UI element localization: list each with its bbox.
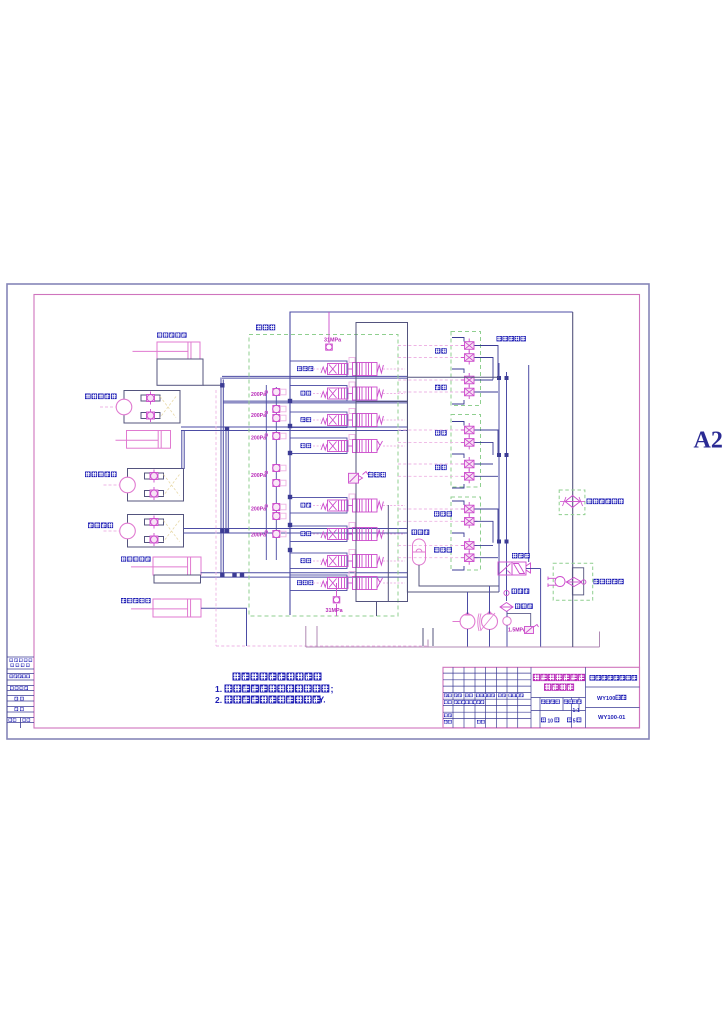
bucket cylinder C1 <box>133 342 201 359</box>
pilot group box 1 <box>451 332 481 406</box>
return filter F2 <box>566 578 582 587</box>
pilot valve P4 <box>461 385 478 399</box>
pilot line dashed P5 <box>398 429 461 431</box>
accumulator A1 <box>413 539 426 565</box>
oil cooler HX1 <box>565 496 580 508</box>
pilot line dashed P9 <box>398 508 461 510</box>
svg-text:1.: 1. <box>215 684 222 694</box>
pilot line dashed P12 <box>398 557 461 559</box>
pilot valve P6 <box>461 435 478 449</box>
pilot group box 2 <box>451 415 481 488</box>
top relief valve <box>326 312 333 350</box>
reducing valve R7 <box>273 503 286 510</box>
school name <box>590 675 638 681</box>
gear pump P3 <box>503 617 511 625</box>
check valve label <box>512 589 530 594</box>
pilot wiring steps <box>452 338 498 571</box>
title block small row texts <box>444 694 452 698</box>
svg-text:1.5MPa: 1.5MPa <box>508 628 526 634</box>
pilot drain dashed vertical <box>216 390 428 646</box>
pressure rail <box>290 312 573 615</box>
svg-text:WY100: WY100 <box>597 696 615 702</box>
main control valve dashed enclosure <box>249 335 398 617</box>
pilot valve P5 <box>461 423 478 437</box>
stage mark / qty / scale <box>541 700 560 704</box>
valve section V3 label <box>301 417 312 422</box>
accumulator label <box>412 530 430 535</box>
feed junctions on rail <box>288 399 292 552</box>
valve section V7 spool <box>313 550 405 568</box>
pilot valve P7 <box>461 457 478 471</box>
pilot enclosure lines <box>407 377 499 592</box>
outer sheet frame <box>7 284 649 739</box>
pilot valve P12 <box>461 551 478 565</box>
pilot group label <box>435 348 447 353</box>
valve block outline <box>356 323 408 402</box>
sheet count <box>541 718 546 723</box>
return filter box <box>553 563 593 600</box>
valve section V7 (spare) feed rect <box>290 553 347 569</box>
main valve label <box>256 325 275 331</box>
valve section V5 label <box>301 503 312 508</box>
pilot group label <box>434 547 452 552</box>
svg-text:;: ; <box>331 684 334 694</box>
svg-text:10: 10 <box>548 718 554 724</box>
reducing valve R6 <box>273 479 286 486</box>
boom cylinder C4 <box>131 599 201 617</box>
bucket cylinder 2 label <box>121 557 151 562</box>
pilot line dashed P2 <box>398 357 461 359</box>
svg-text:200Pa: 200Pa <box>251 436 266 442</box>
pilot valve P11 <box>461 538 478 552</box>
svg-text:WY100-01: WY100-01 <box>598 715 626 721</box>
reducing valve R4 <box>273 432 286 439</box>
bottom relief valve <box>333 583 340 616</box>
boom cylinder label <box>121 598 151 603</box>
inner drawing border <box>34 295 640 729</box>
mid relief valve <box>349 472 371 484</box>
svg-text:Y.: Y. <box>319 695 326 705</box>
reducing valve R3 <box>273 414 286 421</box>
valve section V8 label <box>297 580 313 585</box>
svg-text:2.: 2. <box>215 695 222 705</box>
valve section V2 label <box>301 391 312 396</box>
cylinder C1 port box <box>157 359 203 385</box>
svg-text:31MPa: 31MPa <box>326 608 344 614</box>
wire C1 to bus <box>203 384 222 386</box>
right travel motor M2 <box>128 469 184 502</box>
reducing valve R8 <box>273 512 286 519</box>
pilot group label <box>435 430 447 435</box>
technical notes heading <box>233 673 322 681</box>
pilot valve P2 <box>461 351 478 365</box>
svg-text:200Pa: 200Pa <box>251 392 266 398</box>
valve section V4 label <box>301 443 312 448</box>
reducing valve R5 <box>273 464 286 471</box>
valve section V1 label <box>297 366 313 371</box>
valve section V4 spool <box>313 435 405 453</box>
valve section V2 (arm) feed rect <box>290 386 347 402</box>
pump drains <box>468 586 508 647</box>
cylinder C3 port box <box>154 575 201 583</box>
inner pilot buses <box>266 385 276 560</box>
valve section V8 (right travel) feed rect <box>290 575 347 591</box>
title block outline <box>443 667 640 728</box>
valve section V4 (dozer) feed rect <box>290 438 347 454</box>
solenoid valve S1 <box>498 562 531 575</box>
valve section V1 spool <box>313 358 405 376</box>
pilot line dashed P1 <box>398 345 461 347</box>
accumulator drain <box>419 565 499 586</box>
pilot line dashed P11 <box>398 544 461 546</box>
return filter bypass rect <box>572 568 583 595</box>
bucket cylinder label <box>157 333 187 338</box>
valve section V3 (swing) feed rect <box>290 412 347 428</box>
swing motor M3 <box>128 515 184 548</box>
pilot line dashed P6 <box>398 441 461 443</box>
filter F1 <box>500 603 513 612</box>
bus node dots <box>265 391 268 534</box>
pilot valve P1 <box>461 339 478 353</box>
solenoid drain wire <box>526 569 541 648</box>
valve section V5 (bucket) feed rect <box>290 498 347 514</box>
pilot group label <box>435 465 447 470</box>
svg-text:5: 5 <box>573 718 576 724</box>
valve section V3 spool <box>313 409 405 427</box>
pilot supply verticals <box>499 363 529 601</box>
reducing valve R9 <box>273 530 286 537</box>
pilot valve P10 <box>461 514 478 528</box>
reducing valve R2 <box>273 405 286 412</box>
pilot line dashed P4 <box>398 391 461 393</box>
relief valve label <box>368 472 386 477</box>
valve section V2 spool <box>313 382 405 400</box>
left travel motor M1 <box>124 391 180 424</box>
svg-text:200Pa: 200Pa <box>251 413 266 419</box>
pilot group label <box>435 385 447 390</box>
solenoid valve label <box>512 553 530 558</box>
oil cooler box <box>559 490 585 515</box>
pilot line dashed P3 <box>398 379 461 381</box>
pilot valve P9 <box>461 502 478 516</box>
valve section V7 label <box>301 558 312 563</box>
svg-text:31MPa: 31MPa <box>324 338 342 344</box>
left travel motor label <box>85 394 117 400</box>
pilot bus junctions <box>497 376 509 544</box>
valve section V8 spool <box>313 572 405 590</box>
tank return bus <box>306 626 600 647</box>
swing motor label <box>88 523 113 529</box>
filter label <box>515 604 533 609</box>
left strip labels <box>10 659 33 662</box>
pump P1 <box>460 614 475 629</box>
valve section V6 label <box>301 531 312 536</box>
return pump symbol <box>548 577 565 588</box>
pilot line dashed P8 <box>398 475 461 477</box>
oil cooler label <box>587 499 624 505</box>
pilot control valve label <box>497 336 526 341</box>
pilot group label <box>434 511 452 516</box>
check valve CV1 <box>504 590 509 595</box>
left title strip grid <box>7 657 34 728</box>
left wire bus verticals <box>182 378 229 578</box>
return filter label <box>594 579 624 584</box>
valve section V5 spool <box>313 494 405 512</box>
svg-text:200Pa: 200Pa <box>251 533 266 539</box>
pilot group box 3 <box>451 497 481 570</box>
valve section V6 spool <box>313 523 405 541</box>
svg-text:1:1: 1:1 <box>573 708 580 714</box>
pilot valve P3 <box>461 373 478 387</box>
valve section V6 (boom) feed rect <box>290 526 347 542</box>
tank symbol <box>423 628 433 646</box>
pump P2 <box>482 614 498 630</box>
title text <box>533 674 585 681</box>
svg-text:200Pa: 200Pa <box>251 507 266 513</box>
cylinder C2 (arm) <box>116 431 171 449</box>
junction nodes <box>220 383 244 577</box>
reducing valve R1 <box>273 388 286 395</box>
aux relief valve <box>507 613 539 633</box>
svg-text:A2: A2 <box>694 428 723 454</box>
bus risers <box>572 312 574 647</box>
pilot line dashed P7 <box>398 463 461 465</box>
left wire horizontal pairs <box>181 376 408 646</box>
right travel motor label <box>85 472 117 478</box>
pilot line dashed P10 <box>398 520 461 522</box>
valve section V1 (left travel) feed rect <box>290 361 347 377</box>
cylinder C3 <box>131 557 201 575</box>
svg-text:200Pa: 200Pa <box>251 473 266 479</box>
pilot valve P8 <box>461 469 478 483</box>
